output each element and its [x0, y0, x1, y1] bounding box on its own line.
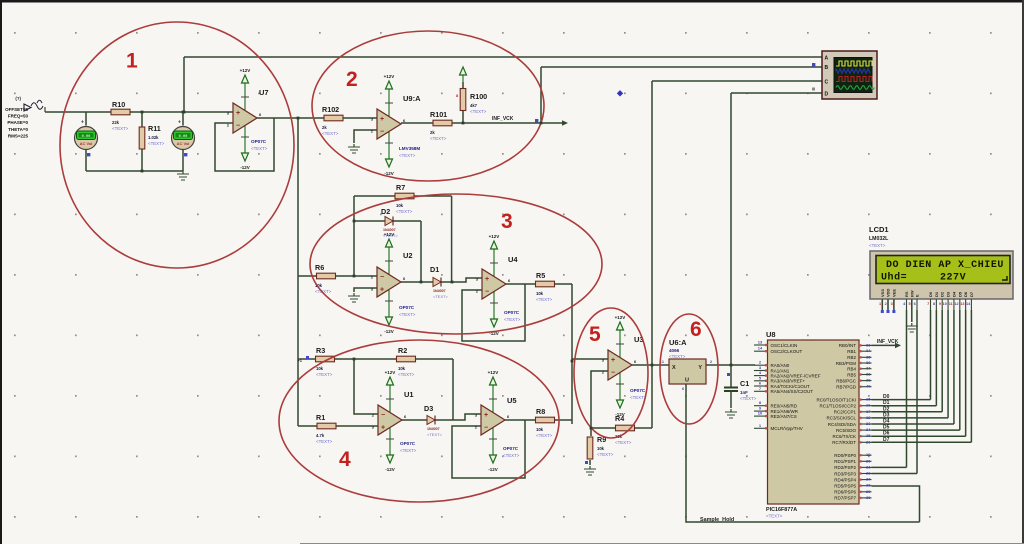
svg-text:D2: D2	[883, 406, 890, 412]
svg-text:15: 15	[866, 397, 871, 402]
svg-text:−: −	[236, 123, 240, 130]
svg-text:RMS=225: RMS=225	[8, 133, 29, 138]
svg-text:35: 35	[866, 354, 871, 359]
svg-text:+: +	[611, 357, 615, 364]
svg-text:-12V: -12V	[385, 467, 395, 472]
svg-text:RC0/T1OSO/T1CKI: RC0/T1OSO/T1CKI	[816, 397, 856, 402]
svg-text:U2: U2	[403, 251, 413, 260]
svg-text:<TEXT>: <TEXT>	[740, 396, 757, 401]
svg-text:RC3/SCK/SCL: RC3/SCK/SCL	[826, 416, 856, 421]
svg-text:<TEXT>: <TEXT>	[399, 312, 416, 317]
svg-text:DO DIEN AP X_CHIEU: DO DIEN AP X_CHIEU	[886, 260, 1004, 271]
svg-text:R7: R7	[396, 183, 405, 192]
svg-text:0.00: 0.00	[82, 135, 91, 139]
svg-text:D4: D4	[951, 291, 956, 297]
svg-text:<TEXT>: <TEXT>	[470, 109, 487, 114]
svg-text:RD5/PSP5: RD5/PSP5	[834, 484, 856, 489]
svg-text:INF_VCK: INF_VCK	[877, 339, 899, 345]
svg-text:RC7/RX/DT: RC7/RX/DT	[832, 440, 856, 445]
svg-text:D7: D7	[969, 291, 974, 297]
svg-text:<TEXT>: <TEXT>	[148, 141, 165, 146]
svg-text:0.00: 0.00	[179, 135, 188, 139]
svg-text:RS: RS	[904, 291, 909, 297]
svg-text:<TEXT>: <TEXT>	[322, 131, 339, 136]
svg-text:A: A	[825, 56, 829, 62]
svg-text:+12V: +12V	[385, 370, 396, 375]
svg-text:1N4007: 1N4007	[427, 427, 440, 431]
svg-text:<TEXT>: <TEXT>	[869, 243, 886, 248]
svg-text:11: 11	[949, 302, 953, 306]
svg-text:RD1/PSP1: RD1/PSP1	[834, 459, 856, 464]
svg-text:+: +	[380, 287, 384, 294]
svg-text:OSC1/CLKIN: OSC1/CLKIN	[771, 343, 798, 348]
svg-text:20: 20	[866, 458, 871, 463]
svg-text:-1: -1	[661, 360, 664, 364]
svg-text:-12V: -12V	[488, 467, 498, 472]
svg-text:+: +	[81, 120, 84, 126]
svg-text:RB6/PGC: RB6/PGC	[836, 378, 857, 383]
svg-text:RC1/T1OSI/CCP2: RC1/T1OSI/CCP2	[819, 404, 856, 409]
svg-text:C1: C1	[740, 379, 749, 388]
svg-text:D0: D0	[883, 394, 890, 400]
svg-text:24: 24	[866, 427, 871, 432]
svg-text:RC5/SDO: RC5/SDO	[836, 428, 857, 433]
svg-text:6: 6	[914, 302, 916, 306]
svg-text:5: 5	[908, 302, 910, 306]
svg-text:AC Vol: AC Vol	[177, 141, 190, 146]
svg-text:OP07C: OP07C	[630, 388, 646, 393]
svg-text:<TEXT>: <TEXT>	[536, 433, 553, 438]
svg-text:Uhd= 227V: Uhd= 227V	[881, 272, 966, 284]
svg-text:6: 6	[682, 387, 684, 391]
svg-text:OP07C: OP07C	[251, 139, 267, 144]
svg-text:−: −	[380, 129, 384, 136]
svg-text:U1: U1	[404, 390, 414, 399]
svg-text:+: +	[236, 110, 240, 117]
svg-text:34: 34	[866, 348, 871, 353]
svg-text:1: 1	[879, 302, 881, 306]
svg-text:+12V: +12V	[240, 68, 251, 73]
svg-text:D7: D7	[883, 437, 890, 443]
svg-text:OFFSET=0: OFFSET=0	[5, 107, 28, 112]
svg-text:D6: D6	[883, 431, 890, 437]
svg-text:D1: D1	[430, 265, 439, 274]
svg-text:16: 16	[866, 403, 871, 408]
svg-text:D5: D5	[883, 425, 890, 431]
svg-text:<TEXT>: <TEXT>	[396, 209, 413, 214]
svg-text:<TEXT>: <TEXT>	[399, 153, 416, 158]
svg-text:D6: D6	[963, 291, 968, 297]
svg-text:22: 22	[866, 471, 871, 476]
svg-text:−: −	[611, 370, 615, 377]
svg-text:R5: R5	[536, 271, 545, 280]
svg-text:INF_VCK: INF_VCK	[492, 116, 514, 122]
svg-text:28: 28	[866, 483, 871, 488]
svg-text:LMV358M: LMV358M	[399, 146, 420, 151]
svg-text:−: −	[485, 289, 489, 296]
svg-text:Y: Y	[698, 365, 702, 371]
svg-text:10: 10	[943, 302, 947, 306]
svg-text:+: +	[485, 276, 489, 283]
svg-text:25: 25	[866, 433, 871, 438]
svg-text:+12V: +12V	[384, 74, 395, 79]
svg-text:D1: D1	[934, 291, 939, 297]
svg-text:D2: D2	[381, 207, 390, 216]
svg-text:RA5/AN4/SS/C2OUT: RA5/AN4/SS/C2OUT	[771, 389, 814, 394]
svg-text:THETA=0: THETA=0	[8, 127, 28, 132]
svg-text:D3: D3	[883, 412, 890, 418]
svg-text:D: D	[825, 92, 829, 98]
svg-text:D0: D0	[928, 291, 933, 297]
svg-text:MCLR/Vpp/THV: MCLR/Vpp/THV	[771, 426, 803, 431]
svg-text:RD0/PSP0: RD0/PSP0	[834, 453, 856, 458]
svg-text:4k7: 4k7	[470, 103, 478, 108]
svg-text:6: 6	[690, 318, 702, 341]
svg-text:1.02k: 1.02k	[148, 135, 159, 140]
svg-text:13: 13	[758, 340, 763, 345]
svg-text:4066: 4066	[669, 348, 680, 353]
svg-text:OP07C: OP07C	[400, 441, 416, 446]
svg-text:39: 39	[866, 378, 871, 383]
svg-text:-12V: -12V	[240, 165, 250, 170]
svg-text:3: 3	[891, 302, 893, 306]
svg-text:VDD: VDD	[886, 288, 891, 297]
svg-text:RB7/PGD: RB7/PGD	[836, 385, 857, 390]
svg-text:U: U	[685, 378, 689, 384]
svg-text:+: +	[380, 116, 384, 123]
svg-text:<TEXT>: <TEXT>	[112, 126, 129, 131]
svg-text:18: 18	[866, 415, 871, 420]
svg-text:<TEXT>: <TEXT>	[504, 317, 521, 322]
svg-text:<TEXT>: <TEXT>	[430, 136, 447, 141]
svg-text:D3: D3	[424, 404, 433, 413]
svg-text:-12V: -12V	[384, 329, 394, 334]
svg-text:B: B	[825, 65, 829, 71]
svg-text:10: 10	[758, 411, 763, 416]
svg-text:<TEXT>: <TEXT>	[398, 372, 415, 377]
svg-text:R2: R2	[398, 346, 407, 355]
svg-text:2k: 2k	[430, 130, 435, 135]
svg-text:RB3/PGM: RB3/PGM	[836, 361, 857, 366]
svg-text:14: 14	[758, 346, 763, 351]
svg-text:U7: U7	[259, 88, 269, 97]
svg-text:(?): (?)	[15, 96, 21, 101]
svg-text:OP07C: OP07C	[503, 446, 519, 451]
svg-text:37: 37	[866, 366, 871, 371]
svg-text:RA4/T0CKI/C1OUT: RA4/T0CKI/C1OUT	[771, 384, 811, 389]
svg-text:1: 1	[126, 50, 138, 73]
svg-text:+: +	[484, 412, 488, 419]
svg-text:PIC16F877A: PIC16F877A	[766, 507, 797, 513]
svg-text:<TEXT>: <TEXT>	[427, 432, 443, 437]
svg-text:RD7/PSP7: RD7/PSP7	[834, 496, 856, 501]
svg-text:+12V: +12V	[488, 370, 499, 375]
svg-text:22k: 22k	[112, 120, 120, 125]
svg-text:−: −	[484, 425, 488, 432]
svg-text:OP07C: OP07C	[399, 305, 415, 310]
svg-text:U6:A: U6:A	[669, 338, 687, 347]
svg-text:9: 9	[939, 302, 941, 306]
svg-text:RE2/AN7/CS: RE2/AN7/CS	[771, 414, 797, 419]
svg-text:2: 2	[885, 302, 887, 306]
svg-text:LM032L: LM032L	[869, 236, 889, 242]
svg-text:8: 8	[933, 302, 935, 306]
svg-text:RB5: RB5	[847, 372, 856, 377]
svg-text:+12V: +12V	[384, 232, 395, 237]
svg-text:<TEXT>: <TEXT>	[316, 439, 333, 444]
svg-text:27: 27	[866, 477, 871, 482]
svg-text:FREQ=50: FREQ=50	[8, 114, 29, 119]
svg-text:R4: R4	[615, 414, 624, 423]
svg-text:R10: R10	[112, 100, 125, 109]
svg-text:19: 19	[866, 452, 871, 457]
svg-text:AC Vol: AC Vol	[80, 141, 93, 146]
svg-text:R102: R102	[322, 105, 339, 114]
svg-text:U8: U8	[766, 330, 776, 339]
svg-text:U5: U5	[507, 396, 517, 405]
svg-text:<TEXT>: <TEXT>	[536, 297, 553, 302]
svg-text:D1: D1	[883, 400, 890, 406]
svg-text:10k: 10k	[536, 291, 544, 296]
svg-text:3: 3	[501, 210, 513, 233]
svg-text:<TEXT>: <TEXT>	[669, 354, 686, 359]
svg-text:4: 4	[339, 448, 351, 471]
svg-text:23: 23	[866, 421, 871, 426]
svg-text:RB0/INT: RB0/INT	[839, 343, 857, 348]
svg-text:30: 30	[866, 495, 871, 500]
svg-text:38: 38	[866, 372, 871, 377]
svg-text:5: 5	[589, 323, 601, 346]
svg-text:R100: R100	[470, 92, 487, 101]
svg-text:2: 2	[346, 68, 358, 91]
svg-text:1N4007: 1N4007	[433, 289, 446, 293]
svg-text:+12V: +12V	[615, 315, 626, 320]
svg-text:RE0/AN5/RD: RE0/AN5/RD	[771, 404, 798, 409]
svg-text:U4: U4	[508, 255, 518, 264]
svg-text:40: 40	[866, 384, 871, 389]
svg-text:1nF: 1nF	[740, 390, 748, 395]
svg-text:RA0/AN0: RA0/AN0	[771, 363, 790, 368]
svg-text:R1: R1	[316, 413, 325, 422]
svg-text:<TEXT>: <TEXT>	[503, 453, 520, 458]
svg-text:D3: D3	[946, 291, 951, 297]
svg-text:+12V: +12V	[489, 234, 500, 239]
svg-text:RD2/PSP2: RD2/PSP2	[834, 465, 856, 470]
svg-text:<TEXT>: <TEXT>	[766, 514, 783, 519]
svg-text:RD6/PSP6: RD6/PSP6	[834, 490, 856, 495]
svg-text:<TEXT>: <TEXT>	[251, 146, 268, 151]
svg-text:R6: R6	[315, 263, 324, 272]
svg-text:<TEXT>: <TEXT>	[400, 448, 417, 453]
svg-text:R3: R3	[316, 346, 325, 355]
svg-text:10k: 10k	[398, 366, 406, 371]
svg-text:10k: 10k	[316, 366, 324, 371]
svg-text:2: 2	[710, 360, 712, 364]
svg-text:RB1: RB1	[847, 349, 856, 354]
svg-text:C: C	[825, 80, 829, 86]
svg-text:LCD1: LCD1	[869, 225, 889, 234]
svg-text:<TEXT>: <TEXT>	[433, 294, 449, 299]
svg-text:PHASE=0: PHASE=0	[7, 120, 28, 125]
svg-text:+: +	[381, 425, 385, 432]
svg-text:RC6/TX/CK: RC6/TX/CK	[832, 434, 856, 439]
svg-text:VSS: VSS	[880, 289, 885, 297]
svg-text:Sample_Hold: Sample_Hold	[700, 517, 734, 523]
svg-text:2k: 2k	[322, 125, 327, 130]
svg-text:10k: 10k	[396, 203, 404, 208]
svg-text:R11: R11	[148, 124, 161, 133]
svg-text:33: 33	[866, 342, 871, 347]
svg-text:10k: 10k	[536, 427, 544, 432]
svg-text:D2: D2	[940, 291, 945, 297]
svg-text:12: 12	[954, 302, 958, 306]
svg-text:<TEXT>: <TEXT>	[597, 452, 614, 457]
svg-text:E: E	[915, 294, 920, 297]
svg-text:RD3/PSP3: RD3/PSP3	[834, 471, 856, 476]
svg-text:10k: 10k	[597, 446, 605, 451]
svg-text:+1: +1	[297, 358, 302, 363]
svg-text:4.7k: 4.7k	[316, 433, 325, 438]
svg-text:17: 17	[866, 409, 871, 414]
svg-text:29: 29	[866, 489, 871, 494]
svg-text:R8: R8	[536, 407, 545, 416]
svg-text:RC4/SDI/SDA: RC4/SDI/SDA	[828, 422, 856, 427]
svg-text:21: 21	[866, 464, 871, 469]
svg-text:36: 36	[866, 360, 871, 365]
svg-text:RB4: RB4	[847, 367, 856, 372]
svg-text:D5: D5	[957, 291, 962, 297]
svg-text:26: 26	[866, 439, 871, 444]
svg-text:D4: D4	[883, 419, 890, 425]
svg-text:VEE: VEE	[891, 289, 896, 297]
svg-text:RD4/PSP4: RD4/PSP4	[834, 477, 856, 482]
svg-text:−: −	[381, 412, 385, 419]
svg-text:RB2: RB2	[847, 355, 856, 360]
svg-text:7: 7	[927, 302, 929, 306]
svg-text:R101: R101	[430, 110, 447, 119]
svg-text:−: −	[380, 274, 384, 281]
svg-text:<TEXT>: <TEXT>	[615, 440, 632, 445]
svg-text:OP07C: OP07C	[504, 310, 520, 315]
svg-text:X: X	[672, 365, 676, 371]
svg-text:RC2/CCP1: RC2/CCP1	[834, 410, 857, 415]
svg-text:+: +	[178, 120, 181, 126]
svg-text:U9:A: U9:A	[403, 94, 421, 103]
svg-text:<TEXT>: <TEXT>	[316, 372, 333, 377]
svg-text:13: 13	[960, 302, 964, 306]
svg-text:OSC2/CLKOUT: OSC2/CLKOUT	[771, 349, 803, 354]
